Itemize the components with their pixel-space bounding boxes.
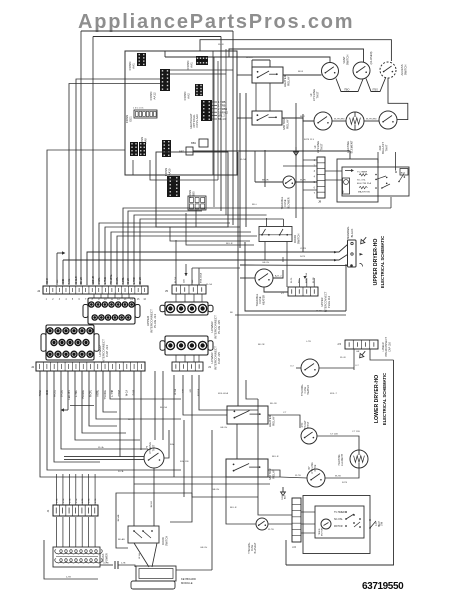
wire lower schematic right border (286, 360, 394, 565)
svg-text:ELECTRI PLA: ELECTRI PLA (357, 182, 372, 185)
wire drop 199 (199, 375, 258, 410)
svg-text:RELAY: RELAY (272, 416, 276, 426)
wire AA3 pin lead (212, 118, 217, 120)
svg-text:THST: THST (315, 91, 319, 98)
wire J4 pin to J14 grid (128, 294, 130, 298)
wire J1 to transformer 6 (94, 517, 96, 547)
svg-text:A-BRL: A-BRL (122, 277, 125, 284)
svg-text:TM: TM (343, 190, 345, 193)
timer motor M lower (321, 519, 331, 529)
wire drop doors (154, 371, 156, 440)
svg-text:LOWER DRYER-HO: LOWER DRYER-HO (374, 375, 380, 423)
wire into fuse lower (296, 367, 301, 369)
wire J4 pin x111 (111, 232, 251, 285)
svg-text:GR-CH: GR-CH (200, 547, 208, 549)
svg-text:SO–OSL: SO–OSL (357, 179, 367, 181)
wire mid vertical x296 (295, 103, 297, 218)
wire bundle x233 (232, 31, 234, 225)
wire AA12 to bundle b (170, 73, 226, 75)
wire cap to keyboard (118, 565, 135, 567)
timer contacts (375, 174, 377, 176)
svg-text:R-CA: R-CA (118, 470, 124, 473)
svg-text:W-TB: W-TB (295, 475, 301, 477)
connector CONN AA15 pins (162, 140, 171, 157)
svg-text:W-CL: W-CL (291, 277, 293, 283)
wire keyboard to GR-CH (176, 569, 212, 571)
none (36, 130, 38, 285)
svg-text:TRANS: TRANS (101, 553, 105, 562)
nothing2 (44, 566, 53, 568)
wire x265 stub (264, 150, 266, 187)
inner enclosure box around CONN AA10 / BB5 (156, 152, 228, 227)
svg-text:LO: LO (376, 522, 378, 525)
svg-text:SWITCH: SWITCH (165, 536, 169, 546)
svg-text:VENT: VENT (342, 56, 346, 64)
wire J4 pin x117 (117, 236, 257, 285)
wire J8 lead2 (303, 189, 317, 191)
relay HEATER RELAY (252, 67, 283, 83)
wire J4 pin x128 (128, 211, 202, 285)
wire J15 cap to J3 (198, 355, 200, 362)
wire into J-6 a (258, 399, 292, 515)
svg-text:W-2R: W-2R (316, 311, 322, 313)
connector LOWER INTERCONNECT PLUG J15 (160, 302, 213, 315)
svg-text:BB7: BB7 (179, 150, 184, 154)
wire L1 to terminal block (87, 245, 348, 286)
svg-text:BK-2: BK-2 (300, 116, 306, 118)
svg-text:W-CA: W-CA (174, 277, 177, 283)
svg-text:R-CPL: R-CPL (117, 276, 119, 284)
svg-text:ITBO: ITBO (373, 89, 379, 91)
wire motor relay to thermostat (282, 118, 314, 121)
wire J8 to timer a (325, 170, 342, 172)
wire L1 top feed to access switch (200, 40, 391, 61)
svg-text:L-TMC: L-TMC (76, 390, 78, 397)
svg-text:R-TB: R-TB (342, 482, 348, 484)
svg-text:AA1: AA1 (190, 62, 194, 68)
wire J6 to timer c (301, 532, 315, 534)
svg-text:J8: J8 (318, 200, 322, 204)
thermostat HI CYCLING THST (322, 63, 339, 80)
wire thermostat out up (164, 430, 169, 458)
wire relay link a (255, 83, 257, 111)
svg-text:TH-UPAL: TH-UPAL (82, 389, 85, 399)
svg-text:N-TB: N-TB (300, 256, 306, 258)
wire mid drop 120 (119, 371, 121, 457)
wire heater relay to hi-limit (294, 74, 321, 76)
wire J1 to transformer 3 (75, 517, 77, 547)
wire J4 pin x69 (69, 84, 160, 286)
timer lower inner (315, 506, 364, 538)
svg-text:SWITCH: SWITCH (404, 65, 408, 76)
wire N upper-left run (93, 36, 221, 38)
wire down to J1 2 (68, 474, 70, 505)
svg-text:BLOWER: BLOWER (286, 197, 290, 208)
transformer TRANS POWER (53, 547, 102, 567)
svg-text:EE1: EE1 (129, 116, 133, 122)
svg-text:CONN AA3: CONN AA3 (195, 114, 199, 128)
thermostat WET CYCLING THST (144, 448, 164, 468)
wire to thermal fuse blower (255, 181, 283, 183)
wire drop 183 (183, 375, 227, 415)
svg-text:THAK: THAK (39, 390, 42, 397)
wire board drop b (150, 160, 218, 180)
wire stub (164, 51, 166, 57)
svg-text:PLUG J14: PLUG J14 (153, 314, 157, 328)
connector CONN AA2 pins (195, 84, 203, 96)
wire lower enclosure upper schematic (245, 242, 346, 311)
svg-text:2-TB: 2-TB (66, 577, 71, 579)
wire down to J1 3 (75, 474, 77, 505)
wire fuse heater up (273, 270, 283, 278)
svg-text:A-TL 2: A-TL 2 (275, 275, 282, 278)
svg-text:RELAY: RELAY (272, 469, 276, 479)
svg-text:NO-B: NO-B (47, 278, 49, 284)
svg-text:R-M 11B: R-M 11B (180, 461, 189, 463)
wire AA12 to bundle a (170, 69, 233, 71)
wire top into buzzer area (395, 152, 397, 171)
wire door sw return left (264, 242, 266, 261)
svg-text:DOOR: DOOR (161, 537, 165, 545)
wire J7 pin stub (313, 278, 315, 287)
ground arrow J-6 (281, 487, 286, 496)
wire into J5 p2 (191, 268, 193, 285)
svg-text:ITBO: ITBO (344, 89, 350, 91)
wire J2 drop x82 (82, 371, 126, 433)
connector UPPER INTERCONNECT PLUG J14 (83, 298, 140, 324)
wire BB7 out to timer (193, 151, 350, 159)
wire door loop right (170, 493, 192, 522)
connector CONN AA10 pins (167, 176, 180, 197)
svg-text:LED-JR: LED-JR (93, 276, 95, 284)
svg-text:ELEMENT: ELEMENT (350, 140, 354, 153)
wire diagonals door switch to keyboard (134, 543, 149, 567)
svg-text:MAJOR SW: MAJOR SW (358, 190, 371, 193)
wire J8 lead3 (283, 165, 317, 167)
wire J2 drop x75 (75, 371, 140, 440)
wire to heater relay (237, 74, 252, 76)
svg-text:W-CA: W-CA (240, 158, 246, 161)
svg-text:CAP J16: CAP J16 (388, 341, 391, 351)
svg-text:UPPER: UPPER (320, 297, 324, 306)
wire long middle vertical x238 (237, 152, 239, 406)
keyboard module box (136, 566, 176, 581)
svg-text:GR-CH: GR-CH (212, 489, 220, 491)
svg-text:J2: J2 (31, 365, 35, 369)
svg-text:BK-LR: BK-LR (230, 507, 237, 509)
svg-text:J-6: J-6 (292, 545, 296, 549)
wire J4 pin x105 (105, 227, 240, 285)
wire AA3 pin lead (212, 111, 217, 113)
svg-text:MOTOR: MOTOR (322, 528, 324, 537)
wire J2 drop x96 (96, 371, 181, 419)
wire J2 drop x47 (47, 371, 181, 470)
svg-text:HEAT: HEAT (378, 520, 381, 527)
wire J2 drop x54 (54, 371, 100, 462)
wire J2 drop x103 (103, 371, 117, 412)
wire drop to thermostat (140, 371, 142, 450)
wire AA3 pin lead (212, 101, 217, 103)
wire double into thermostat (64, 456, 144, 458)
wire J5 pin to J15 (193, 294, 195, 302)
svg-text:(CLOSED): (CLOSED) (369, 51, 373, 64)
wire J15 cap to J3 (184, 355, 186, 362)
wire bundle x240 (239, 93, 241, 248)
wire J4 pin to J14 grid (93, 294, 95, 298)
timer motor (343, 178, 350, 194)
wire down to J1 5 (88, 474, 90, 505)
svg-text:11B: 11B (184, 279, 186, 283)
wire fuse heater to J7 (264, 287, 288, 292)
timer assembly lower outer (303, 496, 370, 554)
thermostat HEAT CYCLING THST (307, 469, 325, 487)
wire left of circles down (302, 114, 304, 252)
wire J4 pin x47 (47, 150, 125, 285)
connector CONN AA12 pins (160, 69, 170, 91)
wire door sw return right (286, 242, 288, 288)
svg-text:ELECTRICAL SCHEMATIC: ELECTRICAL SCHEMATIC (382, 373, 387, 425)
svg-text:GR: GR (356, 351, 360, 353)
wire element to ballast (364, 120, 379, 122)
wire AA3 pin lead (212, 104, 217, 106)
svg-text:AppliancePartsPros.com: AppliancePartsPros.com (78, 11, 354, 33)
wire bundle x214 (213, 57, 215, 207)
svg-text:R-M: R-M (170, 444, 174, 446)
wire between relays (236, 424, 238, 459)
wire to hi-limit top (165, 57, 330, 63)
wire relay top2 (269, 60, 271, 67)
wire GR to terminal block (240, 264, 348, 267)
wire J4 pin x123 (123, 208, 391, 285)
ground arrow upper right (294, 147, 299, 156)
svg-text:R-TR 11.5: R-TR 11.5 (304, 139, 315, 141)
wire J-5 right (370, 349, 394, 360)
connector LOWER INTERCONNECT CAP J15 (160, 336, 213, 355)
wire J15 cap to J3 (193, 355, 195, 362)
wire J15 cap to J3 (175, 355, 177, 362)
switch ACCESS SWITCH (dashed) (380, 62, 396, 78)
svg-text:KEYBOARD: KEYBOARD (181, 577, 196, 581)
connector J-5 lower (345, 340, 378, 349)
svg-text:GR: GR (57, 279, 59, 283)
connector CONN AA8 pins (130, 142, 138, 156)
wire J4 pin x99 (99, 223, 230, 285)
wire J4 pin x134 (134, 215, 267, 285)
switch DOOR SWITCH upper (259, 227, 292, 242)
switch contacts right of timer (395, 171, 397, 173)
svg-text:THAT: THAT (384, 144, 388, 151)
svg-text:1 TRB: 1 TRB (218, 100, 226, 104)
connector J1 (53, 505, 98, 516)
svg-text:LED-JKV: LED-JKV (69, 390, 71, 400)
svg-text:BK-LR: BK-LR (151, 500, 153, 507)
svg-text:MOL-BCA: MOL-BCA (218, 392, 229, 395)
wire J4 pin to J14 grid (100, 294, 102, 298)
svg-text:B-CDL: B-CDL (62, 389, 64, 397)
buzzer BUZ (400, 169, 408, 176)
wire J1 to transformer 1 (62, 517, 64, 547)
wire bb5 drop2 (195, 210, 197, 227)
wire J2 drop x40 (40, 371, 280, 477)
wire motor relay out (268, 470, 280, 477)
svg-text:BLK: BLK (285, 494, 287, 499)
svg-text:BB1: BB1 (191, 141, 196, 145)
svg-text:BU-1R: BU-1R (270, 403, 277, 405)
heater HEATING ELEMENT lower (350, 450, 368, 468)
svg-text:BK-AB: BK-AB (118, 538, 125, 541)
wire into thermal fuse heater (240, 277, 255, 279)
svg-text:L-TB: L-TB (306, 341, 311, 343)
thermostat HI-LIMIT THST (314, 112, 332, 130)
wire J2 drop x61 (61, 371, 146, 449)
wire aa10 drop to stair (170, 227, 250, 241)
svg-text:W-L 2: W-L 2 (218, 114, 225, 118)
wire fuse to J-5 node (319, 367, 354, 369)
connector CONN AA3 pins (201, 100, 212, 121)
switch LO HEAT SW (369, 519, 371, 521)
wire relay link b (269, 83, 271, 111)
timer arrow (345, 169, 354, 172)
svg-text:A-BRL: A-BRL (97, 389, 100, 396)
svg-text:BK-LR: BK-LR (81, 277, 83, 284)
svg-text:2 TRBB: 2 TRBB (218, 107, 227, 111)
svg-text:1 3 5 1 3 5: 1 3 5 1 3 5 (133, 108, 144, 110)
wire J1 to transformer 0 (56, 517, 58, 547)
wire J4 pin x63 (62, 260, 64, 285)
svg-text:SWITCH: SWITCH (297, 234, 301, 245)
svg-text:MOL-BCA: MOL-BCA (200, 272, 203, 283)
wire hl to element (332, 120, 346, 122)
wire into fuse blanket (226, 477, 256, 524)
svg-text:BK-1 R: BK-1 R (218, 117, 226, 121)
svg-text:R-CPL: R-CPL (90, 389, 92, 397)
arrow junction near J4 (57, 251, 65, 255)
wire arrow stub (56, 253, 58, 285)
svg-text:BK-LR: BK-LR (226, 243, 233, 245)
svg-text:AA10: AA10 (167, 168, 171, 175)
svg-text:BK-2R: BK-2R (262, 180, 269, 182)
svg-text:MOTOR: MOTOR (334, 526, 343, 528)
svg-text:L1-TB: L1-TB (103, 563, 109, 565)
svg-text:SWITCH: SWITCH (346, 55, 350, 66)
wire J1 to transformer 4 (81, 517, 83, 547)
svg-text:ELEMENT: ELEMENT (341, 454, 344, 466)
svg-text:GR-CH: GR-CH (262, 262, 270, 264)
wire timer top stub (377, 152, 379, 163)
connector J4 (43, 286, 148, 294)
wire into J5 p4 (198, 268, 200, 285)
svg-text:L1-TB: L1-TB (300, 248, 306, 250)
relay MOTOR RELAY lower (226, 459, 268, 477)
svg-text:J5: J5 (165, 289, 169, 293)
wire drop 192 (192, 375, 258, 497)
svg-text:W-TR 2RD: W-TR 2RD (334, 119, 345, 121)
svg-text:ACCESS: ACCESS (400, 64, 404, 75)
svg-text:MOL-T: MOL-T (330, 393, 337, 395)
wire bundle x218 (217, 61, 219, 180)
wire drop 163 (162, 371, 164, 440)
wire drop 184 (183, 420, 185, 497)
wire drop 246 (246, 380, 258, 399)
wire J2 drop x89 (89, 371, 117, 426)
electronic control board outline (125, 51, 237, 175)
wire bb5 drop to stair (186, 213, 254, 245)
fuse THERMAL FUSE HEATER lower (301, 359, 319, 377)
svg-text:BK-CL: BK-CL (128, 419, 135, 421)
svg-text:L-THB: L-THB (134, 277, 136, 284)
relay MOTOR RELAY (252, 111, 282, 125)
wire down to J1 4 (81, 474, 83, 505)
wire J4 pin x81 (80, 31, 82, 285)
svg-text:1 TRB: 1 TRB (218, 104, 226, 108)
svg-text:J3: J3 (208, 365, 211, 369)
wire J-5 down (353, 349, 355, 370)
svg-text:GND: GND (47, 390, 49, 395)
wire heater relay to hi-limit left (283, 74, 322, 76)
ground arrow under J-5 (358, 350, 367, 360)
wire access to ballast (388, 78, 408, 120)
relay HEATER RELAY lower (227, 406, 268, 424)
svg-text:W-LR: W-LR (128, 278, 130, 284)
wire J5 pin to J15 (184, 294, 186, 302)
svg-text:L-THB: L-THB (112, 390, 114, 397)
wire timer bottom right (390, 197, 392, 208)
wire into J5 p1 (175, 240, 177, 285)
wire heater relay to phdet (268, 415, 300, 428)
svg-text:CAP J14: CAP J14 (105, 345, 109, 357)
svg-text:63719550: 63719550 (362, 581, 404, 592)
svg-text:O-T: O-T (290, 366, 294, 368)
wire relay top (251, 60, 253, 67)
wire drop to fuse blower (254, 151, 256, 182)
svg-text:BK-AB: BK-AB (117, 514, 120, 521)
svg-text:W-LR: W-LR (218, 44, 224, 46)
wire J7 pin stub (298, 278, 300, 287)
wire J4 pin x93 (92, 37, 94, 286)
svg-text:L-TMC: L-TMC (105, 277, 107, 284)
svg-text:BU-L: BU-L (252, 204, 258, 206)
wire arrow stub lower fan (61, 371, 68, 412)
svg-text:PLUG J14: PLUG J14 (327, 295, 331, 308)
wire L1 upper-left run (81, 30, 233, 32)
svg-text:RELAY: RELAY (287, 76, 291, 86)
wire J4 pin to J14 grid (114, 294, 116, 298)
wire to heat cycling (280, 477, 307, 478)
connector LOWER INTERCONNECT CAP J14 (41, 325, 99, 360)
wire J1 to transformer 5 (88, 517, 90, 547)
wire to vent switch top (229, 49, 364, 62)
wire AA3 pin lead (212, 108, 217, 110)
wire stub (282, 257, 284, 262)
connector J2 (36, 362, 145, 371)
svg-text:TERMINAL: TERMINAL (346, 226, 350, 240)
arrow tick at terminal block (360, 253, 364, 256)
svg-text:GND: GND (63, 279, 65, 284)
svg-text:AA1: AA1 (132, 63, 136, 69)
svg-text:TH-UPAL: TH-UPAL (110, 274, 113, 284)
svg-text:W-TB: W-TB (335, 476, 341, 478)
wire relay jumper (252, 59, 270, 61)
svg-text:INTERCONNECT: INTERCONNECT (323, 291, 327, 312)
svg-text:BK-2R: BK-2R (246, 57, 253, 59)
wire AA3 pin lead (212, 115, 217, 117)
svg-text:BK-2R: BK-2R (258, 344, 265, 346)
wire transformer to cap (100, 564, 113, 566)
wire GR-CH vertical (211, 430, 213, 570)
svg-text:W-LR: W-LR (340, 357, 346, 359)
wire J8 lead1 (303, 159, 317, 161)
wire enclosure right (345, 264, 347, 311)
